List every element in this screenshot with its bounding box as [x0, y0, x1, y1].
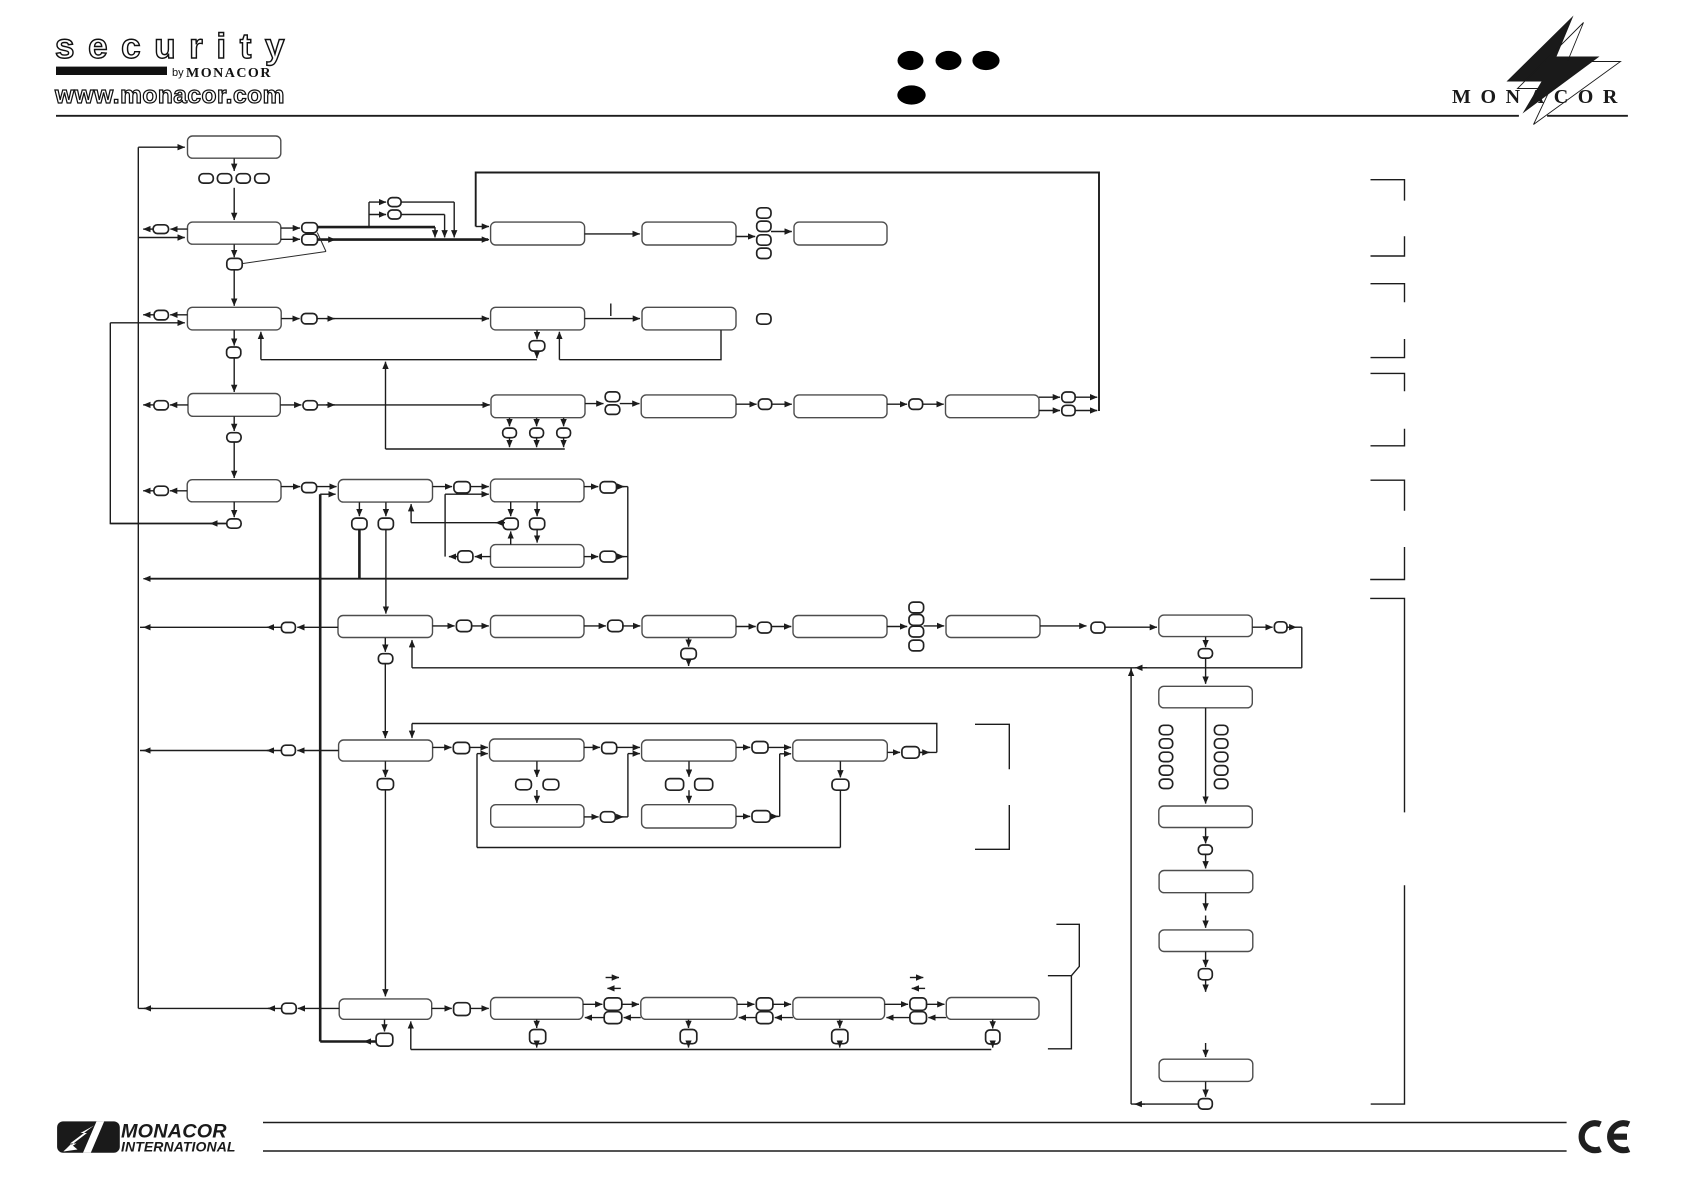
wedge diagonal 2	[243, 252, 326, 264]
wire right return rail x1131	[1130, 668, 1132, 1104]
pill Z5-below	[986, 1030, 1000, 1044]
security black bar	[56, 67, 167, 75]
svg-text:www.monacor.com: www.monacor.com	[54, 82, 285, 109]
wire X2 to left pill	[297, 626, 338, 628]
box R2	[1159, 686, 1253, 708]
wire I to pill	[736, 403, 757, 405]
wire R1 right pill to corner	[1287, 626, 1302, 628]
pill Z4-Z5-top	[910, 998, 927, 1010]
wire H pills drops	[509, 438, 511, 448]
bracket row7 bottom	[975, 805, 1009, 849]
wire top pill thick line	[318, 226, 436, 229]
wedge diagonal 1	[317, 233, 326, 252]
box Y2	[490, 739, 585, 761]
box D	[642, 222, 736, 245]
wire pill to rail	[143, 228, 153, 230]
wire X2 pill down to Y1	[384, 664, 386, 739]
wire F below pill drop	[536, 351, 538, 358]
pill J-K	[909, 399, 923, 409]
pill S5-below	[681, 648, 696, 659]
box I	[641, 395, 736, 418]
pill R6-below	[1198, 1099, 1212, 1110]
bracket right 8	[1370, 547, 1404, 580]
bracket right 6	[1371, 429, 1405, 446]
wire Z4 below	[839, 1020, 841, 1029]
wire U2 drop	[444, 215, 446, 238]
pill G-right	[757, 314, 771, 324]
footer badge	[57, 1121, 120, 1152]
box Y2b	[491, 805, 584, 828]
wire pill to Y4	[768, 746, 791, 748]
wire rail111 entry to B2	[110, 322, 185, 324]
wire column to S7	[924, 625, 945, 627]
wire A down to pills	[233, 158, 235, 171]
pill B2-below	[227, 347, 241, 358]
swap arrows above Z4-Z5	[910, 977, 923, 979]
box R5	[1159, 930, 1253, 952]
pill Z2-below	[530, 1030, 546, 1044]
pill H-right-bottom	[605, 405, 620, 415]
bracket right 4	[1371, 339, 1405, 358]
wire R1 below pill	[1205, 637, 1207, 647]
pill Z1-Z2	[454, 1003, 471, 1016]
box A	[188, 136, 281, 158]
wire Z1 down to pill	[384, 1020, 386, 1032]
wire Y4 right pill to corner	[919, 751, 937, 753]
pill U2	[388, 210, 401, 219]
wire F to G	[585, 318, 640, 320]
pill Y2b-right	[600, 812, 615, 823]
pill S6-col-4	[909, 640, 924, 651]
wire B to right bottom pill	[281, 238, 300, 240]
pill K-right-bottom	[1062, 405, 1075, 415]
pill W-below-2	[378, 518, 393, 529]
bracket right 5	[1371, 373, 1405, 391]
pill B2-right	[301, 314, 317, 324]
wire Z3 below	[688, 1020, 690, 1029]
box C	[491, 222, 585, 245]
wire Y3 to pill	[736, 746, 750, 748]
wire B2 to left pill	[170, 314, 187, 316]
pill W-S1	[454, 482, 470, 493]
wire rail111	[110, 323, 227, 524]
box B2	[187, 307, 281, 330]
wire rail320 entry to W	[320, 493, 335, 495]
wire S1 to right pill	[584, 486, 598, 488]
pill S6-col-3	[909, 626, 924, 637]
box X2	[338, 616, 433, 638]
pill S5-S6	[758, 622, 772, 633]
wire bottom return up into Z1	[410, 1021, 412, 1049]
footer badge white bolt	[63, 1126, 94, 1152]
wire Y3b pill to corner	[770, 815, 779, 817]
redaction dot 4	[897, 85, 925, 104]
wire S5 to pill	[736, 626, 756, 628]
pill S4-S5	[608, 620, 623, 631]
redaction dot 3	[972, 51, 999, 70]
pill B3-right	[303, 401, 317, 410]
pill H-below-2	[530, 428, 544, 438]
wire U branch vertical	[368, 202, 370, 227]
MONACOR top-right logo bolt outline	[1518, 23, 1621, 125]
box Y1	[339, 740, 433, 761]
wire pill to Y2	[470, 746, 488, 748]
bracket right 2	[1371, 236, 1405, 256]
box Y3	[642, 740, 736, 761]
pill Y3-below-1	[666, 779, 684, 791]
wire Y3b to right pill	[736, 815, 750, 817]
wire R4 to R5 arrow2	[1205, 916, 1207, 928]
wire Z3-Z2 bottom left arrows	[624, 1017, 641, 1019]
wire rail to box A	[138, 146, 185, 148]
wire pill to K	[923, 403, 944, 405]
wire subloop line row3 right	[559, 330, 721, 360]
wire Y2 to pill	[584, 746, 600, 748]
box S4	[491, 616, 585, 638]
wire B down to below pill	[233, 244, 235, 257]
wire Y1 to left pill	[297, 750, 338, 752]
tick between F and G	[610, 304, 612, 317]
pill B4-right	[302, 483, 317, 493]
pill B4-left	[154, 486, 169, 495]
pill S2-right	[600, 551, 616, 562]
wire B4 to left pill	[170, 490, 187, 492]
box F	[491, 307, 585, 330]
wire Y4 below pill drop	[839, 790, 841, 847]
box J	[794, 395, 887, 418]
pill R5-below	[1198, 969, 1212, 980]
box Z5	[946, 998, 1039, 1020]
wire loop rect row2	[476, 173, 1099, 412]
wire K to right pills	[1039, 396, 1060, 398]
pill Z3-Z4-top	[756, 998, 773, 1010]
pill Y4-below	[832, 779, 849, 790]
wire pill to S1	[470, 486, 489, 488]
pill H-below-1	[503, 428, 517, 438]
bracket right 9 upper	[1370, 598, 1404, 812]
wire Y4 lower entry rail	[779, 754, 781, 817]
wire S4 to pill	[584, 625, 606, 627]
wire S6 to column	[887, 626, 907, 628]
wire R6 below pill	[1205, 1082, 1207, 1097]
pill Z4-below	[832, 1030, 848, 1044]
wire Z1 below pill to thick rail	[320, 1040, 376, 1043]
wire H to right pills	[585, 403, 604, 405]
wire row7 top return line	[412, 724, 937, 753]
pill grid R2-R3 c1r1	[1159, 725, 1172, 734]
wire H pills to I	[620, 403, 640, 405]
pill Y1-below	[377, 779, 393, 790]
redaction dot 1	[898, 51, 924, 70]
wire left ESC rail	[137, 147, 139, 1008]
bracket right 9 lower	[1371, 885, 1405, 1104]
arrowhead near pill B3-H	[326, 404, 335, 406]
box S7	[946, 616, 1040, 638]
pill DE-col-3	[757, 235, 771, 245]
pill Y1-Y2	[453, 742, 469, 753]
wire pill to J	[772, 403, 792, 405]
wire R3 pill to R4	[1205, 854, 1207, 868]
pill DE-col-4	[757, 248, 771, 258]
pill S7-R1	[1091, 622, 1105, 633]
pill X2-below	[378, 654, 392, 664]
wire Z4-Z5 top right arrows	[885, 1003, 909, 1005]
box G	[642, 307, 736, 330]
wire B2 to right pill	[281, 318, 299, 320]
pill S1-below-1	[503, 518, 518, 529]
pill I-J	[758, 399, 771, 409]
bracket right 3	[1371, 284, 1405, 303]
box B3	[188, 394, 280, 417]
wire subloop up into B2	[260, 332, 262, 360]
box H	[491, 395, 585, 418]
arrowhead y668 into rail junction	[1135, 667, 1147, 669]
box S2	[491, 545, 585, 568]
box Z4	[793, 998, 885, 1020]
arrowhead main line into C	[480, 239, 489, 241]
wire pill to S6	[771, 626, 791, 628]
pill Z4-Z5-bottom	[910, 1012, 927, 1024]
pill Y2-Y3	[602, 742, 617, 753]
wire into R6	[1205, 1043, 1207, 1057]
wire S1 pill1 return left	[411, 522, 503, 524]
pill S1-below-2	[530, 518, 545, 529]
wire R3 below pill	[1205, 828, 1207, 844]
wire B4 to right pill	[281, 486, 300, 488]
wire Y1 pill down to Z1	[384, 790, 386, 997]
pill grid c1r3	[1159, 752, 1172, 761]
box S1	[491, 479, 585, 502]
pill R1-right	[1274, 622, 1287, 633]
footer rules	[263, 1123, 1567, 1152]
box Z3	[641, 998, 737, 1020]
pill Y3b-right	[752, 811, 770, 823]
wire row7 bottom return line	[477, 847, 840, 849]
footer badge white band	[83, 1121, 104, 1152]
arrowhead rail up into junction	[1130, 669, 1132, 677]
wire thick rail x320	[319, 494, 322, 1041]
wire H return line	[386, 448, 565, 450]
wire pills down to B	[233, 188, 235, 220]
wire drop into Y1	[411, 724, 413, 738]
wire B3 left pill to rail	[143, 404, 154, 406]
wire S5 below pill	[688, 638, 690, 647]
pill A4	[255, 174, 269, 183]
wire branch to U1	[369, 201, 386, 203]
box E	[794, 222, 887, 245]
box R6	[1159, 1059, 1253, 1081]
pill DE-col-2	[757, 221, 771, 231]
pill grid c1r5	[1159, 779, 1172, 788]
pill B-right-top	[302, 223, 318, 233]
pill grid c1r4	[1159, 766, 1172, 776]
wire B2 right pill to F	[317, 318, 489, 320]
svg-text:security: security	[55, 27, 298, 66]
arrowhead into F	[480, 318, 489, 320]
wire B2 below pill to B3	[233, 358, 235, 392]
pill Z1-left	[282, 1003, 297, 1013]
wire U1 loop	[401, 201, 454, 203]
wire S2 to left pill	[475, 556, 491, 558]
pill B2-left	[154, 310, 168, 320]
wire drop at 435	[434, 227, 436, 237]
pill X2-left	[281, 622, 295, 632]
arrowhead near pill1 return	[496, 522, 505, 524]
wire S2 return rail to S1	[444, 494, 446, 556]
wire B3 below pill to B4	[233, 442, 235, 478]
pill Y3-Y4	[752, 742, 768, 754]
wire B4 below pill left line	[110, 523, 227, 525]
pill S6-col-2	[909, 615, 924, 626]
wire pill to R1	[1105, 626, 1157, 628]
wire W to pill	[433, 486, 453, 488]
wire bottom return line y1049	[411, 1049, 992, 1051]
pill Z3-Z4-bottom	[756, 1012, 773, 1024]
box B4	[187, 480, 281, 502]
box Y4	[793, 740, 888, 761]
wire B to left pill	[170, 228, 187, 230]
MONACOR top-right logo bolt filled	[1507, 16, 1600, 114]
header rule	[56, 115, 1628, 117]
wire D to DE column	[736, 236, 755, 238]
bracket row8 bottom	[1048, 976, 1072, 1049]
wire U2 loop	[401, 214, 445, 216]
wire S2 to right pill	[584, 556, 598, 558]
box Y3b	[642, 805, 736, 828]
box K	[946, 395, 1040, 418]
box R4	[1159, 871, 1253, 893]
wire Y1 to pill	[433, 746, 452, 748]
box R1	[1159, 615, 1253, 637]
pill A3	[236, 174, 250, 183]
svg-text:INTERNATIONAL: INTERNATIONAL	[121, 1139, 236, 1155]
box S6	[793, 616, 887, 638]
wire B3 to left pill	[170, 404, 188, 406]
wire R5 pill down	[1205, 980, 1207, 992]
wire S2 up into pill1	[510, 531, 512, 544]
wire R4 to R5 arrow1	[1205, 893, 1207, 911]
wire R5 below pill	[1205, 952, 1207, 967]
wire W pill1 thick drop	[358, 530, 361, 579]
wire Y4 to below pill	[839, 761, 841, 777]
wire B3 right pill to H	[317, 404, 488, 406]
pill B3-left	[154, 401, 169, 410]
wire S7 long line to pill	[1040, 625, 1087, 627]
wire R2 to R3	[1205, 708, 1207, 804]
wire B3 down to pill	[233, 416, 235, 431]
wire S2 right pill to corner	[616, 556, 627, 558]
box Z1	[339, 999, 432, 1019]
wire DE column to E	[771, 231, 792, 233]
wire W below arrows	[358, 502, 360, 516]
wire S1 right pill to corner	[617, 486, 628, 488]
wire B3 to right pill	[280, 404, 301, 406]
wire C to D	[585, 233, 640, 235]
wire Y2b pill to corner	[615, 816, 628, 818]
pill Z3-below	[680, 1030, 697, 1044]
pill B-below	[227, 258, 242, 269]
arrowhead near pill B2-F	[326, 318, 335, 320]
wire B2 left pill to rail	[143, 314, 154, 316]
wire ESC corner down	[627, 487, 629, 579]
pill grid c2r2	[1214, 739, 1228, 748]
wire Y2b to right pill	[584, 816, 599, 818]
wire Z2 below	[536, 1020, 538, 1029]
bracket row7 top	[975, 724, 1009, 769]
pill Z1-below	[376, 1033, 393, 1046]
wire return up into W	[410, 504, 412, 523]
wire Z5 below	[992, 1020, 994, 1029]
wire rail entry to B	[138, 237, 185, 239]
wire below pill to B2	[233, 270, 235, 306]
wire R6 pill line to rail	[1131, 1103, 1198, 1105]
wire Y2 below arrows	[536, 761, 538, 777]
box B	[188, 222, 281, 244]
wire B to right top pill	[281, 227, 300, 229]
bracket right 7	[1371, 480, 1405, 511]
pill B-right-bottom	[302, 234, 318, 245]
wire loop entry to C	[476, 226, 489, 228]
CE mark	[1582, 1123, 1629, 1150]
pill Y3-below-2	[695, 779, 713, 791]
wire return up into X2	[411, 640, 413, 668]
pill grid c2r1	[1214, 725, 1228, 734]
svg-text:by: by	[172, 67, 184, 79]
wire ESC line y578 to rail	[145, 578, 628, 580]
pill H-below-3	[557, 428, 571, 438]
pill R1-below	[1198, 649, 1212, 658]
swap arrows above Z2-Z3	[606, 977, 619, 979]
pill DE-col-1	[757, 208, 771, 218]
wire H-return merge up	[385, 362, 387, 449]
pill S2-left	[458, 551, 473, 562]
pill X2-S4	[456, 620, 471, 631]
wire pill to S5	[623, 625, 640, 627]
wire Y4 to right pill	[887, 751, 900, 753]
wire subloop up into F	[558, 332, 560, 360]
pill grid c2r3	[1214, 752, 1228, 761]
wire pill to Z2	[470, 1007, 489, 1009]
wire U1 drop	[453, 202, 455, 237]
wire H below arrows	[509, 418, 511, 426]
wire S1 below arrows	[510, 502, 512, 516]
wire F to below pill	[536, 330, 538, 339]
pill B3-below	[227, 433, 241, 442]
wire Y2 lower entry rail	[476, 754, 478, 848]
wire Y1 down to pill	[384, 761, 386, 777]
pill grid c2r5	[1214, 779, 1228, 788]
wire R1 to right pill	[1252, 626, 1272, 628]
bracket row8 top	[1056, 924, 1079, 975]
box R3	[1159, 806, 1253, 828]
pill Y2-below-2	[543, 779, 559, 790]
wire pill2 down into S2	[536, 530, 538, 543]
wire B bottom pill main line thick	[318, 238, 489, 241]
pill Y1-left	[281, 745, 295, 755]
wire Y3 below arrows	[688, 761, 690, 777]
wire return line y668	[412, 667, 1302, 669]
wire Z5-Z4 bottom left arrows	[928, 1017, 946, 1019]
wire X2 to right pill	[433, 625, 455, 627]
pill Z2-Z3-bottom	[604, 1012, 622, 1024]
redaction dot 2	[936, 51, 962, 70]
pill B4-below	[227, 519, 241, 528]
wire X2 left pill line to rail	[140, 626, 281, 628]
wire B4 right pill to W	[317, 486, 337, 488]
arrowhead B4-below line near pill	[210, 523, 219, 525]
wire Z3-Z4 top right arrows	[737, 1003, 755, 1005]
wire pill to S4	[472, 625, 489, 627]
